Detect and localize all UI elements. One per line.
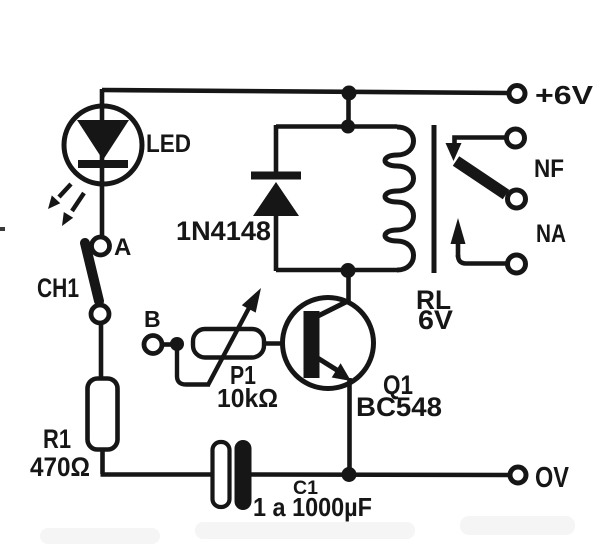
resistor R1 — [88, 379, 118, 450]
svg-text:+6V: +6V — [535, 80, 594, 110]
switch CH1 bottom contact — [91, 305, 109, 323]
svg-text:1 a 1000µF: 1 a 1000µF — [253, 492, 372, 522]
relay core bar — [432, 125, 437, 273]
svg-text:A: A — [114, 234, 131, 261]
wire 0V rail left segment — [101, 472, 215, 477]
svg-text:R1: R1 — [43, 424, 71, 454]
capacitor C1 left plate — [213, 442, 230, 507]
node A terminal circle — [92, 237, 110, 255]
relay blade — [456, 161, 506, 195]
junction emitter-rail — [342, 467, 357, 482]
wire LED branch vertical — [100, 89, 105, 239]
wire relay top horizontal — [276, 124, 397, 129]
svg-text:1N4148: 1N4148 — [176, 216, 271, 246]
svg-text:10kΩ: 10kΩ — [217, 383, 278, 413]
relay contact NF arrowhead — [446, 143, 462, 161]
svg-text:B: B — [144, 306, 161, 332]
capacitor C1 right plate — [235, 440, 252, 510]
potentiometer P1 body — [193, 329, 264, 358]
wire relay bottom horizontal — [276, 268, 397, 273]
wire switch to R1 — [99, 323, 104, 379]
svg-text:LED: LED — [146, 130, 191, 158]
LED light arrow 2 — [62, 193, 84, 226]
svg-text:NF: NF — [534, 155, 564, 183]
wire diode branch top — [274, 125, 279, 174]
potentiometer P1 arrow shaft — [208, 306, 250, 385]
junction relay top — [341, 120, 355, 134]
terminal 0V — [510, 467, 526, 483]
potentiometer P1 arrowhead — [242, 288, 261, 313]
relay contact NF wire — [455, 138, 506, 150]
junction B node — [170, 337, 184, 351]
scan smudge 2 — [195, 522, 415, 539]
junction relay bottom / collector — [341, 263, 356, 278]
svg-text:OV: OV — [535, 462, 570, 494]
switch CH1 blade — [85, 243, 99, 301]
terminal +6V — [509, 86, 525, 102]
relay coil RL — [385, 127, 414, 270]
wire 0V rail right segment — [251, 472, 509, 477]
svg-text:CH1: CH1 — [37, 273, 79, 303]
LED light arrow 1 — [48, 184, 71, 209]
wire R1 to 0V rail — [100, 449, 105, 474]
scan edge mark — [0, 227, 5, 231]
terminal NA — [508, 255, 526, 273]
wire emitter to rail — [347, 378, 352, 474]
relay contact NA arrow — [451, 218, 466, 257]
wire diode branch bottom — [274, 214, 279, 271]
scan smudge 1 — [40, 528, 160, 544]
wire collector — [346, 270, 351, 304]
scan smudge 3 — [460, 516, 575, 535]
wire +6V top rail — [102, 90, 508, 93]
terminal B — [144, 336, 162, 354]
junction top rail / relay branch — [342, 86, 357, 101]
svg-text:470Ω: 470Ω — [30, 452, 90, 482]
LED D1 — [64, 106, 142, 184]
wire rail to relay top — [346, 93, 351, 127]
svg-text:BC548: BC548 — [356, 392, 442, 422]
svg-text:NA: NA — [536, 220, 566, 248]
diode 1N4148 — [251, 172, 301, 217]
wire B to junction — [162, 342, 174, 347]
wire P1 to base — [262, 341, 305, 346]
terminal common pole — [508, 190, 526, 208]
transistor Q1 — [283, 298, 374, 389]
terminal NF — [507, 129, 525, 147]
wire P1 wiper loop — [177, 349, 210, 385]
svg-text:6V: 6V — [418, 305, 453, 335]
relay contact NA wire — [458, 255, 506, 264]
